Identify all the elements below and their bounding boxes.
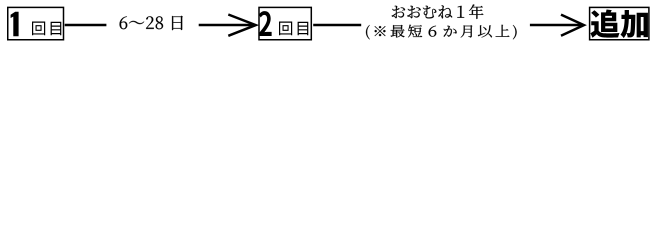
- label おおむね１年 (approx. 1 year): [392, 4, 484, 19]
- box: 2nd dose (2回目): [259, 7, 311, 39]
- digit 1 (1回目): [11, 12, 19, 36]
- label 6〜28 日 (interval): [120, 16, 183, 30]
- wire: box2 to label: [313, 24, 361, 27]
- label 追加 (booster): [590, 10, 648, 39]
- box: 1st dose (1回目): [8, 7, 64, 39]
- wire: box1 to label: [65, 24, 107, 27]
- digit 2 (2回目): [259, 11, 272, 36]
- vaccination schedule diagram: [0, 0, 652, 48]
- label 回目 (box 1): [32, 21, 61, 35]
- arrow: to 2nd dose: [199, 24, 254, 27]
- label 回目 (box 2): [279, 21, 308, 35]
- label ※最短6か月以上 (min. 6 months): [366, 25, 517, 40]
- box: booster dose (追加): [590, 7, 649, 39]
- arrow: to booster: [530, 24, 582, 27]
